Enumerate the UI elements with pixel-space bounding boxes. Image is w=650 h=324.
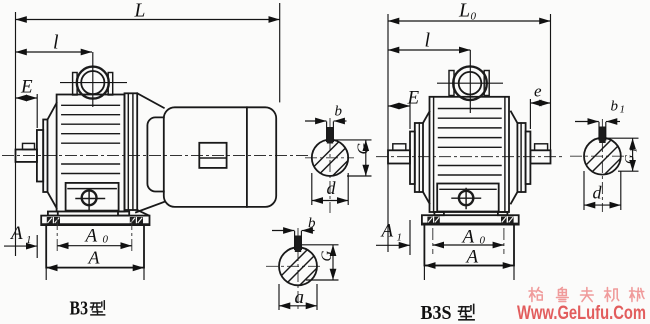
svg-text:A: A [9, 223, 23, 244]
cover [437, 184, 499, 212]
dim b [305, 120, 326, 122]
motor nameplate [199, 143, 226, 168]
svg-text:A: A [84, 226, 98, 247]
svg-text:E: E [20, 77, 33, 98]
svg-text:0: 0 [471, 11, 477, 23]
dim d [311, 173, 313, 205]
dim A0 [57, 245, 69, 247]
dim a [278, 284, 280, 310]
legs [434, 212, 444, 215]
svg-text:1: 1 [629, 148, 639, 153]
dim A1 right [376, 244, 410, 246]
鲁 [556, 288, 568, 302]
svg-text:1: 1 [620, 104, 626, 116]
svg-text:l: l [425, 30, 431, 52]
svg-text:A: A [88, 248, 101, 268]
svg-text:E: E [407, 88, 420, 109]
adapter slant bottom [136, 202, 165, 213]
dim b1 [575, 121, 599, 123]
fins [439, 109, 502, 176]
svg-text:A: A [380, 221, 394, 242]
svg-text:d: d [593, 183, 603, 203]
centerline main horizontal [2, 155, 310, 157]
ext line left [15, 12, 17, 256]
fins [62, 105, 120, 173]
left cap [410, 132, 415, 185]
flange plate [125, 93, 138, 210]
svg-text:l: l [53, 32, 59, 54]
svg-text:a: a [295, 287, 305, 308]
dim G1 [606, 137, 639, 139]
label 型 left [91, 301, 105, 315]
格 [529, 288, 542, 302]
reducer case [57, 95, 125, 212]
svg-text:L: L [458, 0, 470, 22]
svg-text:b: b [611, 99, 619, 115]
svg-text:G: G [319, 251, 335, 262]
svg-text:L: L [134, 1, 146, 22]
case [430, 97, 510, 212]
legs [48, 212, 58, 216]
dim L0 [388, 20, 551, 22]
motor hump [147, 117, 163, 191]
bolt slots left [47, 217, 53, 224]
bolt slots right [130, 217, 136, 224]
right shaft [530, 150, 550, 163]
dim G [300, 244, 339, 246]
inspection cover [66, 183, 119, 211]
shaft key [23, 143, 35, 149]
svg-text:b: b [335, 104, 343, 120]
svg-text:d: d [327, 178, 337, 198]
eyebolt U2 [453, 66, 487, 100]
dim E right [388, 105, 410, 107]
svg-text:e: e [534, 82, 542, 101]
circle [312, 140, 348, 176]
svg-text:0: 0 [103, 234, 109, 246]
dim e [530, 102, 550, 104]
base body [46, 225, 144, 268]
dim I [388, 49, 470, 51]
left cone slants [423, 112, 430, 124]
left shaft [388, 150, 410, 163]
svg-text:B3: B3 [70, 298, 89, 320]
械 [630, 288, 645, 302]
svg-text:1: 1 [397, 232, 403, 244]
cap plate [43, 120, 47, 193]
bearing cap [37, 130, 43, 182]
机 [605, 288, 619, 302]
svg-text:A: A [465, 247, 479, 268]
motor seam [246, 107, 248, 207]
dim b [272, 230, 294, 232]
svg-text:b: b [308, 216, 316, 232]
svg-text:A: A [461, 227, 475, 248]
base body [424, 225, 514, 266]
svg-text:G: G [355, 143, 372, 155]
dim G [333, 139, 372, 141]
svg-text:0: 0 [480, 235, 486, 247]
svg-text:B3S: B3S [421, 302, 452, 324]
right cap [517, 123, 525, 192]
base strip [422, 215, 519, 224]
ext line right of L [279, 3, 281, 102]
motor body [164, 107, 276, 207]
夫 [580, 288, 593, 302]
svg-text:1: 1 [26, 234, 32, 246]
dim L [16, 19, 280, 21]
centerlines [305, 157, 354, 159]
eyebolt U1 [77, 67, 109, 99]
hatch [305, 133, 360, 187]
keyway slot [327, 127, 333, 144]
cone slant top [48, 103, 57, 120]
dim l [16, 51, 93, 53]
cover bolt [82, 190, 97, 205]
dim A0 right [433, 244, 445, 246]
dim A right [424, 265, 514, 267]
right cone slants [511, 112, 518, 124]
cone slant bottom [48, 192, 57, 208]
dim d [583, 171, 585, 210]
svg-text:Www.GeLufu.Com: Www.GeLufu.Com [517, 302, 646, 324]
dim A1 [4, 245, 37, 247]
adapter slant top [137, 93, 164, 108]
base strip [41, 216, 149, 226]
svg-text:G: G [622, 154, 637, 164]
centerline [376, 156, 564, 158]
dim A [46, 267, 144, 269]
label 型 right [459, 304, 475, 319]
output shaft [16, 150, 38, 162]
dim E [16, 97, 38, 99]
